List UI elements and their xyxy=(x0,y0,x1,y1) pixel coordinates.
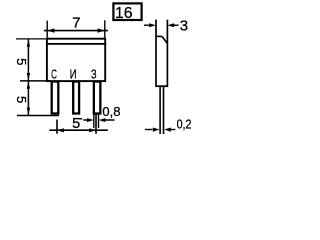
cap line xyxy=(46,43,106,45)
dim 0,8 arrow left xyxy=(83,119,88,121)
dim 5 bottom arrow left xyxy=(57,128,64,132)
dim 5 lower arrow up xyxy=(27,82,30,89)
svg-text:И: И xyxy=(70,66,77,81)
dim 7 arrow right xyxy=(98,28,105,32)
svg-text:5: 5 xyxy=(14,96,29,103)
pin lead 2 xyxy=(73,82,79,114)
pin lead 3 xyxy=(94,82,101,114)
dim 5 bottom tick right xyxy=(95,115,97,134)
dim 3 arrow right xyxy=(168,23,175,27)
svg-text:5: 5 xyxy=(72,116,80,132)
dim 3 arrow left xyxy=(149,23,156,27)
dim 7 extension tick left xyxy=(46,21,48,38)
dim 5 lower arrow down xyxy=(27,108,30,115)
svg-text:0,8: 0,8 xyxy=(102,104,120,119)
dim 5 upper arrow down xyxy=(27,73,30,80)
side view lead left line xyxy=(159,87,161,135)
pin lead 1 xyxy=(52,82,59,114)
dim 0,8 extension left xyxy=(93,115,95,129)
dim 7 line xyxy=(44,30,108,32)
svg-text:7: 7 xyxy=(72,14,80,31)
svg-text:С: С xyxy=(51,66,57,81)
dim 5 bottom arrow right xyxy=(89,128,96,132)
dim 5 vertical line xyxy=(27,39,29,116)
side view bottom xyxy=(155,85,168,87)
label 5 bottom top-bar extension xyxy=(79,118,83,120)
side view chamfer xyxy=(162,36,167,43)
dim 0,2 arrow left xyxy=(153,128,160,132)
svg-text:З: З xyxy=(91,66,97,81)
svg-text:0,2: 0,2 xyxy=(177,116,192,131)
side view left edge xyxy=(155,20,157,87)
dim 5 mid extension line (body bottom level) xyxy=(20,80,50,82)
dim 5 upper arrow up xyxy=(27,40,30,47)
dim 3 line left tail xyxy=(144,24,150,26)
svg-text:3: 3 xyxy=(180,17,188,34)
side view top face xyxy=(155,35,162,37)
dim 7 arrow left xyxy=(47,28,54,32)
dim 5 bottom line xyxy=(49,129,108,131)
type number box 16 xyxy=(113,3,141,20)
svg-text:5: 5 xyxy=(14,58,29,65)
package body front view xyxy=(47,39,105,81)
dim 0,2 line right tail xyxy=(169,129,175,131)
dim 5 lower extension line (lead bottom level) xyxy=(17,115,59,117)
dim 5 bottom tick left xyxy=(56,120,58,134)
svg-text:16: 16 xyxy=(115,5,133,22)
dim 3 line right tail xyxy=(171,24,179,26)
dim 5 upper extension line (cap top level) xyxy=(16,38,46,40)
dim 0,2 line left tail xyxy=(145,129,153,131)
dim 7 extension tick right xyxy=(104,20,106,38)
dim 0,8 extension right xyxy=(98,115,100,129)
side view lead right line xyxy=(163,87,165,135)
side view right edge xyxy=(166,20,168,87)
dim 0,8 arrow right xyxy=(99,118,106,122)
dim 0,2 arrow right xyxy=(164,128,171,132)
